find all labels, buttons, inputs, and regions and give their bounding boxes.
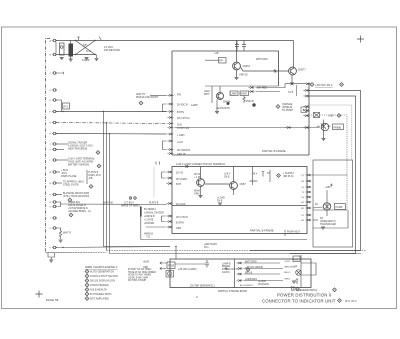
svg-text:28V RED: 28V RED (257, 87, 267, 90)
wire pin12 tail (46, 251, 107, 253)
connector bottom ground cluster (48, 253, 55, 260)
svg-text:PRIME: PRIME (334, 126, 342, 129)
svg-text:REG 2: REG 2 (284, 272, 291, 274)
wire bus 239 (141, 239, 307, 241)
relay K1 (60, 43, 65, 55)
svg-text:AUTO GENERATION: AUTO GENERATION (90, 271, 114, 274)
lamp right (296, 270, 302, 276)
svg-text:2N B: 2N B (224, 176, 230, 179)
dark comp D1 (252, 103, 255, 106)
svg-text:(DR PLN): (DR PLN) (283, 175, 294, 178)
svg-text:HOSE TO ANY WHEN: HOSE TO ANY WHEN (128, 274, 151, 277)
note 28V gate (56, 159, 68, 161)
svg-text:(OUTER SEPARATE) 2: (OUTER SEPARATE) 2 (190, 285, 216, 288)
svg-text:28 V/GRN: 28 V/GRN (176, 178, 187, 181)
wire pin19 long (56, 247, 170, 248)
strip wires right (244, 263, 284, 281)
wire M2 up (326, 190, 328, 202)
L2 lower bracket (162, 216, 166, 222)
title note diamond (338, 299, 342, 303)
L2 bracket (162, 172, 166, 178)
wire right v4 (309, 115, 348, 210)
svg-text:SH 1 OF 2: SH 1 OF 2 (345, 300, 357, 303)
svg-text:+BATT/GRN: +BATT/GRN (204, 243, 217, 246)
ladder L1 loop bracket upper (163, 104, 167, 112)
pump assy bracket (285, 230, 300, 237)
svg-text:(FREQUENCY): (FREQUENCY) (320, 221, 336, 223)
wire ladder top left (150, 94, 167, 96)
svg-text:PUMP: PUMP (82, 58, 90, 62)
svg-text:LAMP: LAMP (291, 266, 298, 269)
wire M2 down ground (326, 211, 328, 216)
transducer note (313, 219, 319, 221)
svg-text:MODULATE WONT: MODULATE WONT (136, 96, 159, 99)
wire pair right (256, 84, 286, 92)
box with dot (301, 107, 307, 113)
relay cluster K2 (205, 85, 279, 87)
svg-text:2N11 B DISPLAY/JON: 2N11 B DISPLAY/JON (90, 280, 115, 283)
wire L3 to right (312, 175, 349, 228)
svg-text:LAMP: LAMP (191, 104, 198, 107)
ladder L2 contacts left (166, 171, 172, 228)
lamp box DS2 (166, 271, 174, 278)
label C1 tick (77, 37, 80, 41)
svg-text:2N577: 2N577 (298, 68, 306, 72)
bracket pins 15-16 (56, 202, 66, 207)
wire fuse to cap (175, 263, 205, 265)
register mark top-right (357, 36, 364, 43)
svg-text:+28V: +28V (325, 186, 331, 189)
svg-text:28 V RTN A: 28 V RTN A (177, 117, 190, 120)
fuse box F1 (167, 262, 175, 269)
svg-text:N.O.: N.O. (86, 49, 92, 53)
svg-text:28 B: 28 B (177, 125, 182, 127)
svg-text:B RTN: B RTN (177, 112, 184, 114)
crossover wires (76, 41, 96, 55)
wire pin6 to ladder (56, 111, 167, 113)
svg-text:(MADE UP WIRE): (MADE UP WIRE) (121, 205, 140, 208)
connector P1 pins (52, 39, 57, 249)
svg-text:TO PUMP: TO PUMP (282, 109, 293, 112)
svg-text:+ 1 PL: + 1 PL (194, 176, 202, 179)
svg-text:2N B: 2N B (217, 200, 223, 203)
svg-text:PARTIAL B FRAME: PARTIAL B FRAME (262, 149, 286, 153)
note pin12 (56, 171, 60, 173)
Q4 emitter (233, 190, 235, 195)
wires entering strip left (160, 263, 167, 269)
svg-text:JACKS: JACKS (222, 271, 230, 274)
wire to Q2 top (293, 41, 295, 68)
svg-text:GRN 25: GRN 25 (239, 74, 248, 77)
svg-text:STEEL PLATE: STEEL PLATE (63, 184, 79, 187)
unit box B2 (172, 167, 307, 234)
ground Q1 (235, 78, 239, 80)
svg-text:PARTIAL B FRAME: PARTIAL B FRAME (250, 229, 274, 233)
drop to B3 (175, 247, 177, 260)
contact mid (285, 126, 291, 128)
ladder L3 inner labels (301, 175, 305, 222)
transistor Q4 (230, 182, 238, 190)
svg-text:-28VDC: -28VDC (249, 180, 258, 183)
ladder L2 extra labels (176, 173, 186, 231)
svg-text:FUS: FUS (294, 260, 299, 262)
unit box B1 (172, 51, 309, 155)
ground R1 (59, 240, 63, 242)
terminal box B3 (170, 259, 311, 288)
strip contacts (236, 262, 242, 264)
wire v 252 (252, 167, 254, 186)
svg-text:+28: +28 (214, 51, 219, 55)
svg-text:ALT B/GRN 2: ALT B/GRN 2 (240, 284, 254, 287)
bracket note (86, 170, 88, 184)
jct symbols (129, 197, 132, 200)
wire contact to M2 (313, 207, 323, 208)
contact bottom (289, 286, 295, 288)
note pin10 (56, 149, 64, 151)
svg-text:+SIGNAL TRACER: +SIGNAL TRACER (144, 212, 164, 215)
wire into bridge (174, 127, 319, 129)
svg-text:GRN: GRN (194, 193, 200, 196)
svg-text:+28 R: +28 R (284, 261, 290, 263)
airframe boundary dash-dot line (46, 39, 51, 253)
svg-text:+B BORN: +B BORN (144, 223, 154, 225)
transformer T1 (69, 44, 74, 57)
svg-text:28 VDC B: 28 VDC B (177, 104, 188, 107)
right cluster wires (301, 255, 316, 288)
svg-text:+A LP: +A LP (177, 141, 184, 144)
svg-text:DRVR: DRVR (241, 94, 248, 96)
wire M1 down (323, 130, 325, 138)
svg-text:AT RTN 2N: AT RTN 2N (177, 127, 189, 130)
lamp DS1 (314, 113, 320, 118)
tbar sym (262, 172, 265, 177)
svg-text:WIRE CHART/LEGEND A: WIRE CHART/LEGEND A (85, 265, 118, 269)
ground left (60, 58, 64, 60)
svg-text:+DRIVE B: +DRIVE B (144, 216, 155, 218)
label box driver relay (240, 91, 249, 96)
svg-text:WHT/ORN: WHT/ORN (256, 58, 268, 61)
label box pump cont (219, 58, 227, 64)
pin letter labels (50, 40, 52, 250)
svg-text:GRN L: GRN L (284, 279, 291, 281)
svg-text:BATTERY MARGIN: BATTERY MARGIN (68, 164, 89, 167)
wire bar down (140, 217, 142, 240)
svg-text:LAMP: LAMP (231, 93, 238, 96)
fuse right (293, 256, 300, 262)
svg-text:+28 VDC 2N A: +28 VDC 2N A (315, 83, 333, 87)
ladder L1 contacts on box B1 left edge (167, 94, 173, 154)
wire pin7 dashdot (56, 123, 167, 124)
wire cl b link (296, 85, 298, 96)
dark blob (227, 102, 230, 105)
label box fuel primer (333, 124, 344, 130)
svg-text:CONNECTOR TO INDICATOR UNIT: CONNECTOR TO INDICATOR UNIT (262, 298, 336, 303)
ground right cluster (292, 281, 296, 283)
label box fuel pump (335, 204, 346, 210)
Q3 emitter ground (200, 187, 202, 196)
svg-text:PARTIAL STROKE BOND: PARTIAL STROKE BOND (218, 290, 247, 293)
svg-text:+BUS: +BUS (143, 262, 150, 264)
strip right small labels (284, 261, 291, 281)
motor bridge M2 (323, 203, 331, 211)
label box lamp B (230, 91, 238, 96)
svg-text:F/P: F/P (83, 43, 87, 47)
note pin14 (56, 194, 62, 196)
wire to Q1 (236, 41, 238, 63)
ladder L1 loop bracket lower (163, 141, 167, 150)
wire bus top 28V (56, 40, 294, 42)
svg-text:PRI RETURN: PRI RETURN (104, 48, 120, 52)
resistor R1 (56, 228, 62, 239)
svg-text:FUSE: FUSE (168, 266, 175, 268)
wire down to Q3a (212, 86, 220, 103)
svg-text:2N: 2N (320, 218, 323, 220)
svg-text:B1 TERM A: B1 TERM A (144, 208, 156, 211)
svg-text:CHAIN HEAVEN: CHAIN HEAVEN (90, 284, 109, 287)
svg-text:B RT: B RT (176, 184, 182, 186)
svg-text:B GRN: B GRN (176, 222, 184, 225)
svg-text:JCT BOX: JCT BOX (124, 203, 134, 205)
svg-text:PUMP: PUMP (336, 206, 343, 209)
svg-text:N B B HEALTH: N B B HEALTH (90, 289, 107, 292)
wire L2 bottom left (146, 226, 166, 228)
svg-text:(STILL 750 B GRATION): (STILL 750 B GRATION) (63, 195, 89, 198)
svg-text:2N: 2N (315, 204, 318, 206)
wire bottom bus3 (110, 253, 362, 255)
junction arrow (273, 69, 277, 73)
svg-text:CL B: CL B (288, 91, 294, 94)
svg-text:PLATE B: PLATE B (149, 202, 159, 205)
Q3a emitter ground (216, 100, 218, 112)
heavy bar node (140, 207, 142, 217)
svg-text:P/N: P/N (177, 94, 181, 97)
wire pin3 stub (56, 72, 64, 74)
svg-text:+RAISED BORN - G I: +RAISED BORN - G I (68, 210, 92, 213)
bus2 end drop ground (96, 55, 98, 59)
svg-text:IF PART OF AN OPEN: IF PART OF AN OPEN (128, 268, 152, 271)
wire bottom bus2 (107, 250, 367, 252)
pump box B2b (313, 160, 353, 247)
drop wire d1 (103, 112, 105, 247)
bus inside B2 (172, 205, 307, 207)
motor bridge M1 (321, 123, 329, 131)
wire Q1 to Q2 (241, 68, 289, 72)
ground pump (85, 58, 89, 60)
svg-text:TP: TP (267, 172, 270, 175)
svg-text:LAMP B: LAMP B (222, 263, 231, 266)
note signal tracer (56, 143, 68, 145)
wire pin15 long (66, 203, 167, 206)
Q2 emitter wire (285, 75, 305, 85)
svg-text:A/B: A/B (89, 177, 93, 180)
svg-text:F/P: F/P (219, 60, 223, 63)
Q4 collector wire (233, 167, 235, 182)
svg-text:+GATE B/TH: +GATE B/TH (216, 107, 230, 110)
svg-text:DISPL PLANE: DISPL PLANE (61, 175, 77, 178)
svg-text:+28 VDC (LAMP): +28 VDC (LAMP) (178, 268, 197, 271)
svg-text:PUMP ASSY: PUMP ASSY (287, 231, 301, 234)
drop wire d3 (109, 134, 111, 254)
svg-text:28 V HIGH: 28 V HIGH (176, 216, 188, 219)
transistor Q3 (197, 179, 205, 187)
svg-text:BATT GENERATOR(S): BATT GENERATOR(S) (291, 289, 317, 292)
svg-text:CHAIN A SHUTTLE/JON: CHAIN A SHUTTLE/JON (90, 275, 118, 278)
ladder L1 extra labels (177, 112, 186, 156)
wire pin8 (56, 133, 167, 136)
cap c3 (205, 260, 209, 268)
register mark bottom-left (36, 291, 43, 298)
svg-text:WHT R: WHT R (63, 232, 71, 235)
divider (234, 259, 236, 288)
svg-text:A 28 V LOAD CONNECTOR NO TERMI: A 28 V LOAD CONNECTOR NO TERMINAL (176, 163, 226, 166)
capacitor C1 (235, 41, 239, 52)
svg-text:WHT/VIO: WHT/VIO (103, 202, 113, 205)
note pin13 (56, 182, 62, 184)
drop wire d2 (106, 123, 108, 251)
arrow tap (99, 37, 102, 41)
ground under T1 (69, 59, 73, 61)
svg-text:2N64 B: 2N64 B (246, 101, 254, 103)
svg-text:WHT: WHT (204, 93, 210, 96)
wire right v1 (250, 91, 361, 251)
note paragraph (128, 268, 156, 282)
transistor Q2 (289, 67, 297, 75)
svg-text:NEW TRACER(S): NEW TRACER(S) (68, 148, 87, 151)
battery sym (296, 278, 299, 284)
svg-text:+1 GATE: +1 GATE (144, 219, 154, 222)
wire bottom bus1 (104, 246, 171, 248)
contact pair right (248, 86, 254, 88)
svg-text:TRANSDUCER: TRANSDUCER (320, 223, 336, 226)
ground Q4 (218, 203, 222, 205)
svg-text:GRN 2B: GRN 2B (177, 154, 186, 156)
transistor Q1 (233, 62, 241, 70)
contact row A (right of box B1) (304, 83, 310, 85)
svg-text:ARMD B: ARMD B (144, 233, 153, 236)
wire right v3 (309, 105, 352, 160)
capacitor C2 (242, 41, 246, 52)
svg-text:(2N)/GRN: (2N)/GRN (258, 283, 269, 286)
tick marks (156, 162, 160, 165)
x mark B2 corner (186, 165, 189, 168)
svg-text:NOT AMPLIFIED: NOT AMPLIFIED (90, 298, 109, 301)
wire TP (269, 170, 271, 182)
ladder L3 contacts right of B2 (305, 174, 311, 221)
svg-text:B CHANNEL WHTL: B CHANNEL WHTL (90, 293, 113, 296)
svg-text:28 T/GRN B: 28 T/GRN B (177, 149, 190, 152)
transistor Q3a (217, 93, 224, 100)
wire right v2 (290, 96, 356, 254)
wire Q3-Q4 (205, 183, 230, 185)
svg-text:J: J (50, 144, 51, 146)
wire lamp sw drop (56, 100, 62, 112)
wire arrow to label box (205, 59, 219, 61)
ground M1 (322, 139, 326, 141)
svg-text:USING B ANY AMP: USING B ANY AMP (128, 276, 149, 279)
Q1 emitter wire (236, 70, 238, 77)
svg-text:NOT B/D STOMP: NOT B/D STOMP (128, 280, 147, 282)
Q3 collector wire (200, 167, 202, 179)
svg-text:2N457: 2N457 (243, 64, 251, 68)
label box lamp sw (63, 103, 70, 109)
resistor R2 (243, 96, 245, 104)
wire bus return (56, 54, 96, 56)
svg-text:TRUE AT AN ONE ORDER: TRUE AT AN ONE ORDER (128, 271, 156, 274)
svg-text:GRN: GRN (176, 228, 181, 230)
wire pin link (55, 42, 57, 53)
svg-text:28 V B: 28 V B (176, 173, 183, 175)
svg-text:+ GRN: + GRN (177, 134, 185, 137)
svg-text:- 28 V: - 28 V (251, 173, 258, 176)
dotted drop (153, 168, 155, 198)
svg-text:PAGE 58: PAGE 58 (46, 298, 59, 302)
svg-text:LP S: LP S (63, 107, 68, 109)
svg-text:2N L: 2N L (204, 247, 210, 249)
svg-text:2N57: 2N57 (240, 182, 247, 186)
svg-text:POWER DISTRIBUTION II: POWER DISTRIBUTION II (277, 292, 331, 297)
